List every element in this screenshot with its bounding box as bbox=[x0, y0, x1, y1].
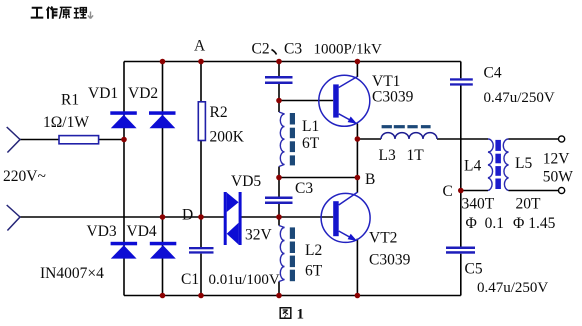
inductor L2 core bbox=[290, 227, 295, 281]
svg-text:L2: L2 bbox=[305, 242, 322, 259]
wire L3 right to L4 top bbox=[437, 138, 488, 140]
wire VT2 emitter to rail bbox=[356, 239, 358, 296]
terminal top output bbox=[559, 136, 565, 142]
wire VT1 collector stub bbox=[356, 62, 358, 78]
svg-text:1000P/1kV: 1000P/1kV bbox=[314, 42, 383, 58]
svg-text:1Ω/1W: 1Ω/1W bbox=[43, 114, 89, 131]
node bottom rail at VD4 bbox=[160, 293, 166, 299]
node bottom rail at L2 bbox=[276, 293, 282, 299]
capacitor C1 bbox=[189, 247, 214, 254]
svg-text:R2: R2 bbox=[210, 104, 228, 121]
svg-text:12V: 12V bbox=[543, 151, 571, 168]
svg-text:L3: L3 bbox=[379, 147, 396, 164]
node top rail at VT1 bbox=[355, 59, 361, 65]
wire column R2 upper (node A to R2) bbox=[200, 62, 202, 102]
wire node C to L4 bottom bbox=[461, 190, 488, 192]
terminal bottom output bbox=[559, 187, 565, 193]
svg-text:VD2: VD2 bbox=[128, 85, 158, 102]
svg-text:220V~: 220V~ bbox=[3, 168, 46, 185]
node B at VT1 emitter bbox=[355, 175, 361, 181]
transformer winding L5 bbox=[503, 139, 508, 191]
svg-text:340T: 340T bbox=[462, 196, 495, 213]
transistor VT1 bbox=[319, 75, 370, 126]
wire L5 bottom to terminal bbox=[509, 190, 559, 192]
svg-text:C3039: C3039 bbox=[369, 252, 411, 269]
wire input 1 right of R1 bbox=[99, 139, 124, 141]
wire C2 bottom to L1 top bbox=[278, 84, 280, 112]
inductor L3 winding bbox=[381, 133, 437, 139]
svg-text:L4: L4 bbox=[464, 158, 481, 175]
svg-text:Φ 1.45: Φ 1.45 bbox=[513, 215, 556, 232]
title 工作原理 (hand-drawn CJK strokes) bbox=[31, 7, 87, 19]
wire net B bbox=[279, 177, 357, 179]
svg-text:200K: 200K bbox=[210, 129, 245, 146]
wire input 2 bbox=[20, 216, 163, 218]
node B at L1 bottom bbox=[276, 175, 282, 181]
title down-arrow bbox=[88, 12, 93, 19]
svg-text:C3: C3 bbox=[295, 180, 313, 197]
caption 图 1 (figure 1) bbox=[280, 308, 291, 319]
svg-text:VD4: VD4 bbox=[127, 223, 157, 240]
diode VD3 bbox=[111, 242, 138, 259]
svg-text:R1: R1 bbox=[61, 92, 79, 109]
diode VD2 bbox=[149, 111, 176, 128]
svg-text:VT2: VT2 bbox=[369, 230, 397, 247]
label ideographic comma bbox=[272, 50, 277, 55]
wire L2 bottom to rail bbox=[278, 282, 280, 296]
wire L5 top to terminal bbox=[509, 138, 559, 140]
svg-text:6T: 6T bbox=[305, 263, 323, 280]
wire C1 bottom to rail bbox=[200, 254, 202, 296]
svg-text:C3039: C3039 bbox=[372, 89, 414, 106]
svg-text:VD5: VD5 bbox=[231, 173, 261, 190]
wire bottom rail bbox=[124, 295, 461, 297]
resistor R2 bbox=[198, 102, 205, 141]
svg-text:C2: C2 bbox=[252, 41, 270, 58]
svg-text:20T: 20T bbox=[516, 196, 542, 213]
wire left column VD1/VD3 bbox=[123, 62, 125, 296]
node VT1 base / L1 top bbox=[276, 98, 282, 104]
node D at C1 bbox=[198, 214, 204, 220]
zener VD5 (bidirectional) bbox=[224, 192, 242, 245]
svg-text:IN4007×4: IN4007×4 bbox=[40, 265, 104, 282]
diode VD1 bbox=[110, 111, 137, 128]
svg-text:VD1: VD1 bbox=[88, 85, 118, 102]
transformer winding L4 bbox=[488, 139, 493, 191]
svg-text:A: A bbox=[194, 38, 206, 55]
svg-text:VD3: VD3 bbox=[87, 223, 117, 240]
svg-text:0.01u/100V: 0.01u/100V bbox=[209, 272, 280, 288]
svg-text:6T: 6T bbox=[302, 135, 320, 152]
inductor L1 core bbox=[290, 113, 295, 165]
wire VT1 base bbox=[279, 100, 333, 102]
wire C2 top stub bbox=[278, 62, 280, 77]
wire net D left segment bbox=[163, 216, 224, 218]
wire C5 bottom to rail bbox=[460, 254, 462, 296]
capacitor C2 bbox=[265, 76, 293, 84]
transformer core bbox=[495, 140, 501, 189]
svg-text:D: D bbox=[182, 207, 193, 224]
svg-text:0.47u/250V: 0.47u/250V bbox=[477, 280, 548, 296]
svg-text:C5: C5 bbox=[465, 261, 483, 278]
svg-text:0.47u/250V: 0.47u/250V bbox=[484, 90, 555, 106]
capacitor C5 bbox=[446, 247, 475, 254]
capacitor C4 bbox=[450, 78, 473, 85]
svg-text:32V: 32V bbox=[245, 227, 273, 244]
wire input 1 left of R1 bbox=[20, 139, 59, 141]
capacitor C3 bbox=[265, 197, 293, 205]
node bottom rail at C1 bbox=[198, 293, 204, 299]
svg-text:L5: L5 bbox=[515, 155, 532, 172]
wire net D right segment to VT2 base bbox=[241, 216, 333, 218]
node top rail at VD2 bbox=[160, 59, 166, 65]
node A junction bbox=[198, 59, 204, 65]
wire L3 left bbox=[357, 138, 381, 140]
inductor L3 core bbox=[382, 125, 431, 128]
svg-text:B: B bbox=[365, 171, 375, 188]
wire VT1 emitter to VT2 collector column bbox=[356, 124, 358, 193]
input arrow 1 bbox=[7, 127, 20, 153]
wire L1 bottom to C3 top bbox=[278, 167, 280, 197]
svg-text:C1: C1 bbox=[181, 271, 199, 288]
diode VD4 bbox=[150, 242, 177, 259]
node input1 at VD1/VD3 bbox=[121, 137, 127, 143]
wire C3 bottom to L2 top bbox=[278, 204, 280, 226]
svg-text:C: C bbox=[443, 183, 453, 200]
wire column VD2/VD4 bbox=[162, 62, 164, 296]
wire C4 top stub bbox=[460, 62, 462, 79]
inductor L1 winding bbox=[279, 112, 285, 167]
transistor VT2 bbox=[321, 192, 370, 242]
svg-text:C4: C4 bbox=[484, 65, 502, 82]
input arrow 2 bbox=[7, 205, 20, 231]
node D at VD2/VD4 bbox=[160, 214, 166, 220]
svg-text:C3: C3 bbox=[284, 41, 302, 58]
svg-text:50W: 50W bbox=[543, 169, 574, 186]
svg-text:Φ 0.1: Φ 0.1 bbox=[466, 215, 504, 232]
node C junction bbox=[458, 188, 464, 194]
wire top rail A bbox=[124, 61, 461, 63]
inductor L2 winding bbox=[279, 226, 285, 282]
node top rail at C2 bbox=[276, 59, 282, 65]
resistor R1 bbox=[59, 136, 99, 144]
node D at L2 top bbox=[276, 214, 282, 220]
svg-text:L1: L1 bbox=[302, 118, 319, 135]
svg-text:1: 1 bbox=[297, 307, 305, 323]
wire C4 bottom to C5 top (node C column) bbox=[460, 86, 462, 247]
svg-text:VT1: VT1 bbox=[372, 73, 400, 90]
node L3 left at VT1 emitter column bbox=[355, 136, 361, 142]
wire column R2 bottom to C1 top bbox=[200, 141, 202, 248]
svg-text:1T: 1T bbox=[407, 147, 425, 164]
node bottom rail at VT2 bbox=[355, 293, 361, 299]
